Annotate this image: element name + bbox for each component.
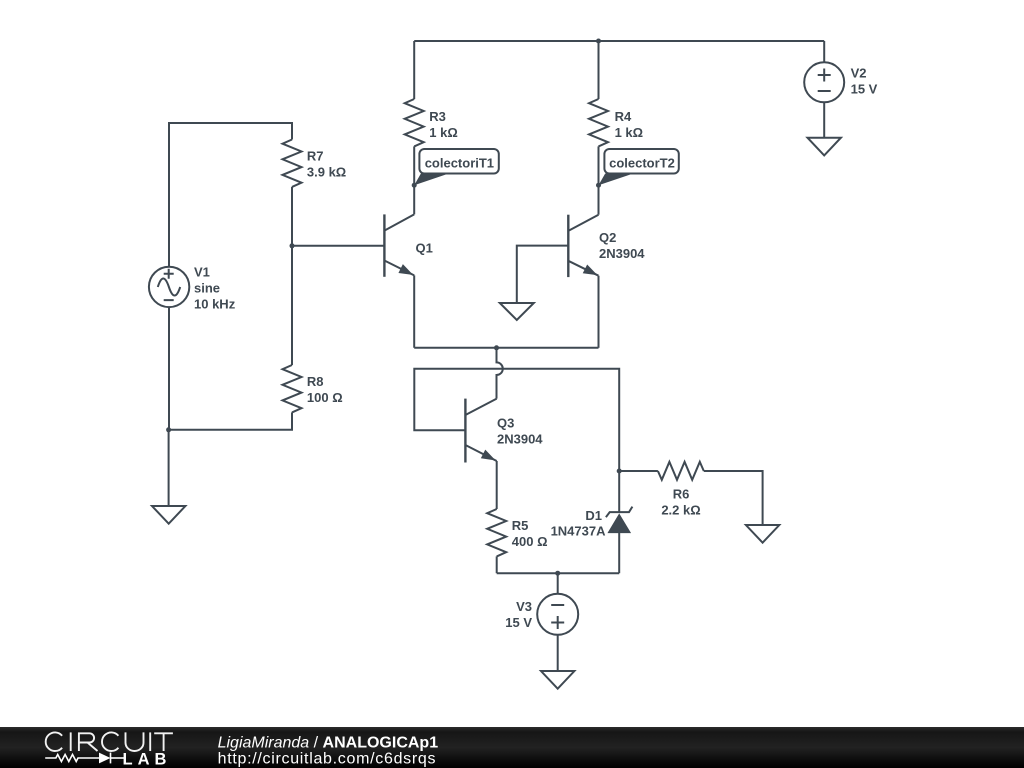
wire R4 branch top [598,41,600,99]
transistor Q3 [465,399,496,463]
ground below R6 [746,525,779,543]
wire bottom rail [497,572,620,574]
wire R3 to Q1 collector [413,146,415,214]
wire V3 stem [557,573,559,594]
wire Q3 emitter to R5 [496,461,498,509]
node Q1 base tee [290,243,295,248]
svg-text:LigiaMiranda / ANALOGICAp1: LigiaMiranda / ANALOGICAp1 [218,734,439,751]
wire R6 to ground [704,471,763,525]
node V1 ground [166,427,171,432]
svg-text:R31 kΩ: R31 kΩ [429,109,458,140]
ground below V3 [541,671,574,689]
wire Q3 collector with hop over feedback wire [497,348,503,399]
node common emitter [494,345,499,350]
ground below V1 [152,506,185,524]
node colectoriT1 [412,183,417,188]
logo resistor-diode squiggle [45,753,124,764]
wire feedback from base node to zener node [414,369,619,471]
resistor R5 [487,509,506,556]
wire V3 to ground [557,635,559,671]
wire Q1 base [292,245,384,247]
wire V1 top loop [169,123,292,267]
wire R6 node left [619,470,658,472]
svg-text:Q32N3904: Q32N3904 [497,416,543,447]
resistor R3 [405,99,424,146]
wire Q2 emitter down [598,276,600,348]
wire ground stem V1 [168,430,170,506]
wire R4 to Q2 collector [598,146,600,214]
zener diode D1 [606,507,633,574]
wire Q1 emitter down [413,275,415,347]
wire Q2 base to ground [517,246,569,303]
resistor R8 [283,365,302,412]
transistor Q1 [384,214,414,276]
voltage source V1 [149,267,189,307]
flag colectorT2 [599,149,679,185]
svg-text:Q22N3904: Q22N3904 [599,230,645,261]
wire R5 to bottom rail [496,556,498,573]
svg-text:R8100 Ω: R8100 Ω [307,374,343,405]
resistor R7 [283,140,302,187]
wire R7 to R8 [291,187,293,365]
wire zener node to D1 [618,471,620,512]
wire R8 to bottom [169,412,292,429]
wire top supply rail [414,40,824,42]
node V3 tee [555,571,560,576]
wire V2 to ground [823,102,825,137]
wire V2 stem [823,41,825,62]
svg-text:V215 V: V215 V [851,66,878,97]
logo diode triangle [99,753,111,764]
svg-text:R5400 Ω: R5400 Ω [512,518,548,549]
flag colectoriT1 [414,149,499,185]
wire V1 bottom [168,307,170,430]
voltage source V3 [537,594,578,635]
node junction top rail [596,39,601,44]
svg-text:colectorT2: colectorT2 [609,156,675,171]
svg-text:R62.2 kΩ: R62.2 kΩ [661,487,700,518]
svg-text:Q1: Q1 [416,241,433,256]
logo CIRCUIT wordmark [46,732,173,751]
svg-text:LAB: LAB [123,751,172,768]
resistor R4 [589,99,608,146]
svg-text:http://circuitlab.com/c6dsrqs: http://circuitlab.com/c6dsrqs [218,751,437,768]
node colectorT2 [596,183,601,188]
wire common emitter rail [414,347,598,349]
svg-text:R73.9 kΩ: R73.9 kΩ [307,149,346,180]
resistor R6 [658,462,704,480]
sine symbol inside V1 [158,279,180,296]
node zener R6 [617,469,622,474]
svg-text:V315 V: V315 V [505,599,532,630]
svg-text:R41 kΩ: R41 kΩ [615,109,644,140]
svg-text:colectoriT1: colectoriT1 [425,156,494,171]
transistor Q2 [568,215,598,277]
footer bar [0,727,1024,768]
svg-text:V1sine10 kHz: V1sine10 kHz [194,265,236,312]
voltage source V2 [804,62,844,102]
ground below Q2 base [500,303,534,320]
wire R3 branch top [413,41,415,99]
ground below V2 [808,138,841,156]
svg-text:D11N4737A: D11N4737A [551,508,607,539]
